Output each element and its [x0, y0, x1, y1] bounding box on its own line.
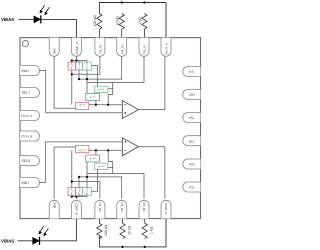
svg-text:VS+: VS+ — [189, 93, 196, 97]
right pin VS+ 2 — [183, 90, 201, 100]
top pin COMP_A — [71, 38, 81, 57]
node dot rail/R2 — [121, 1, 123, 3]
output wire A to VOUT_A — [139, 56, 165, 109]
bottom pin FB_B2 — [117, 200, 127, 218]
wire red switch A bottom to summing vertical — [71, 70, 73, 105]
switch SW B1 — [71, 188, 73, 195]
node dot inv B blue — [95, 149, 97, 151]
bus wire FB_A3 — [72, 56, 100, 74]
switch SW A5 — [98, 88, 105, 90]
bottom pin COMP_B — [71, 200, 81, 218]
op-amp U1B — [122, 138, 138, 156]
wire blue comp A down — [95, 101, 97, 105]
bottom pin VOUT_B — [161, 200, 171, 218]
wire: D1 cathode to COMP_A pin — [41, 19, 76, 37]
resistor RF1 100k (top) — [97, 14, 102, 38]
svg-text:10 kΩ: 10 kΩ — [116, 16, 120, 26]
right pin VS- 3 — [183, 113, 201, 123]
resistor RF6 1k (bottom) — [142, 219, 147, 239]
svg-text:SEL1: SEL1 — [22, 91, 31, 95]
svg-text:VOUT_B: VOUT_B — [164, 203, 168, 215]
node dot rail A pin — [75, 59, 77, 61]
node dot rail/R5 — [121, 246, 123, 248]
node dot bus B2 — [78, 176, 80, 178]
svg-text:INB: INB — [52, 203, 56, 209]
top pin FB_A1 — [139, 38, 149, 57]
op-amp A plus sign — [124, 112, 126, 114]
blue gain box A2 — [76, 62, 83, 70]
red series box B — [76, 145, 89, 152]
bottom feedback rail wire — [99, 219, 166, 247]
left pin SEL0 — [20, 156, 40, 166]
bus wire FB_B3 — [72, 182, 100, 199]
node dot inv A green — [107, 104, 109, 106]
resistor RF5 10k (bottom) — [120, 219, 125, 239]
blue gain box B2 — [76, 188, 83, 196]
node dot rail/R3 — [143, 1, 145, 3]
red gain box A1 — [68, 62, 75, 70]
node dot bus A3 — [71, 73, 73, 75]
switch SW B3 — [86, 188, 88, 195]
wire COMP_A pin to switch rail A — [75, 56, 77, 60]
switch SW A3 — [86, 63, 88, 70]
wire green switch B4 to comp switch — [91, 170, 97, 192]
green gain box A3 — [83, 62, 92, 70]
wire: top VBIAS line to photodiode D1 — [19, 18, 34, 20]
bus wire FB_B1 — [87, 150, 144, 198]
switch stubs row A — [72, 61, 87, 64]
top feedback rail wire — [99, 3, 166, 38]
right pin VS 1 — [183, 67, 201, 77]
op-amp U1A — [122, 101, 138, 119]
wire blue comp B up — [95, 150, 97, 155]
green comp box A — [94, 86, 108, 92]
bottom pin FB_B1 — [139, 200, 149, 218]
left pin INA+ — [20, 66, 40, 76]
node dot bus A2 — [78, 78, 80, 80]
svg-text:VOUT_A: VOUT_A — [165, 43, 169, 55]
svg-text:FB_B1: FB_B1 — [142, 203, 146, 213]
switch SW A1 — [71, 63, 73, 70]
wire green switch A4 to comp switch — [91, 66, 97, 87]
svg-text:VS+: VS+ — [189, 163, 196, 167]
node dot rail B pin — [75, 196, 77, 198]
switch SW B7 — [79, 149, 86, 151]
svg-text:FB_B2: FB_B2 — [120, 203, 124, 213]
switch SW B2 — [78, 188, 80, 195]
node dot rail A left — [71, 59, 73, 61]
node dot inv A blue — [95, 104, 97, 106]
top pin VOUT_A — [161, 38, 171, 57]
svg-text:100 kΩ: 100 kΩ — [104, 224, 108, 236]
bottom pin INB- — [49, 200, 59, 218]
svg-text:1 kΩ: 1 kΩ — [138, 17, 142, 25]
svg-text:– VBIAS: – VBIAS — [0, 17, 14, 22]
red gain box B1 — [68, 188, 75, 196]
switch SW A2 — [78, 63, 80, 70]
svg-text:INA+: INA+ — [22, 69, 30, 73]
wire: bottom VBIAS line to photodiode D2 — [18, 240, 33, 242]
wire INA+ to noninverting input A — [40, 71, 123, 113]
inverting input wire B — [89, 149, 123, 151]
node dot blue switch B bottom — [86, 176, 88, 178]
photodiode D2 — [33, 237, 40, 245]
svg-text:FB_A1: FB_A1 — [143, 44, 147, 54]
node dot bus B3 — [71, 180, 73, 182]
svg-text:VS–: VS– — [189, 116, 196, 120]
node dot blue switch A top — [86, 78, 88, 80]
switch SW A7 — [79, 104, 86, 106]
op-amp B plus sign — [124, 141, 126, 143]
resistor RF2 10k (top) — [119, 14, 124, 38]
svg-text:INA: INA — [53, 48, 57, 54]
switch rail A wire — [72, 60, 88, 62]
bus wire FB_A1 — [87, 56, 144, 104]
photodiode D1 — [34, 15, 41, 23]
svg-text:VS: VS — [189, 70, 194, 74]
svg-text:100 kΩ: 100 kΩ — [93, 15, 97, 27]
right pin PD — [183, 136, 201, 146]
svg-text:LTCH_B: LTCH_B — [21, 134, 33, 138]
svg-text:FB_B3: FB_B3 — [98, 203, 102, 213]
light arrows into D1 — [40, 5, 50, 15]
svg-text:– VBIAS: – VBIAS — [0, 239, 14, 244]
svg-text:PD: PD — [189, 140, 194, 144]
bus wire FB_B2 — [79, 177, 122, 199]
IC U1 package body — [20, 38, 201, 219]
switch SW B5 — [98, 165, 105, 167]
left pin LTCH_A — [20, 111, 40, 121]
wire COMP_B pin to switch rail B — [75, 197, 77, 199]
svg-text:10 kΩ: 10 kΩ — [127, 225, 131, 235]
left pin LTCH_B — [20, 131, 40, 141]
svg-text:COMP_B: COMP_B — [75, 203, 79, 216]
output wire B to VOUT_B — [139, 147, 165, 199]
red series box A — [76, 102, 89, 109]
pin-1 indicator circle — [22, 41, 28, 47]
svg-text:VS: VS — [189, 186, 194, 190]
inverting input wire A — [89, 104, 123, 106]
right pin VS 6 — [183, 182, 201, 192]
svg-text:INB+: INB+ — [22, 181, 30, 185]
left pin SEL1 — [20, 88, 40, 98]
bottom pin FB_B3 — [95, 200, 105, 218]
top pin FB_A3 — [95, 38, 105, 57]
green gain box B3 — [83, 188, 92, 196]
switch SW B6 — [89, 157, 96, 159]
top pin INA- — [49, 38, 59, 57]
node dot rail B left — [71, 196, 73, 198]
bus wire FB_A2 — [79, 56, 122, 79]
node dot inv B green — [107, 149, 109, 151]
resistor RF4 100k (bottom) — [97, 219, 102, 239]
switch stubs row B — [72, 194, 87, 197]
right pin VS+ 5 — [183, 159, 201, 169]
svg-text:FB_A2: FB_A2 — [120, 44, 124, 54]
green comp box B — [94, 163, 108, 169]
wire INA- pin into series switch A — [54, 56, 75, 108]
left pin INB+ — [20, 178, 40, 188]
blue comp box B — [86, 155, 100, 162]
switch rail B wire — [72, 196, 88, 198]
wire red switch B top to summing vertical — [71, 150, 73, 187]
top pin FB_A2 — [117, 38, 127, 57]
op-amp A minus sign — [124, 104, 126, 106]
wire INB- pin into series switch B — [54, 147, 75, 199]
resistor RF3 1k (top) — [142, 14, 147, 38]
light arrows into D2 — [39, 226, 49, 236]
op-amp B minus sign — [124, 149, 126, 151]
svg-text:FB_A3: FB_A3 — [99, 44, 103, 54]
svg-text:COMP_A: COMP_A — [75, 42, 79, 55]
wire: D2 cathode to COMP_B pin — [40, 219, 76, 241]
svg-text:1 kΩ: 1 kΩ — [150, 226, 154, 234]
blue comp box A — [86, 94, 100, 101]
svg-text:SEL0: SEL0 — [22, 159, 31, 163]
switch SW A6 — [89, 96, 96, 98]
svg-text:LTCH_A: LTCH_A — [21, 114, 34, 118]
node dot rail/R6 — [144, 246, 146, 248]
wire INB+ to noninverting input B — [40, 142, 123, 183]
